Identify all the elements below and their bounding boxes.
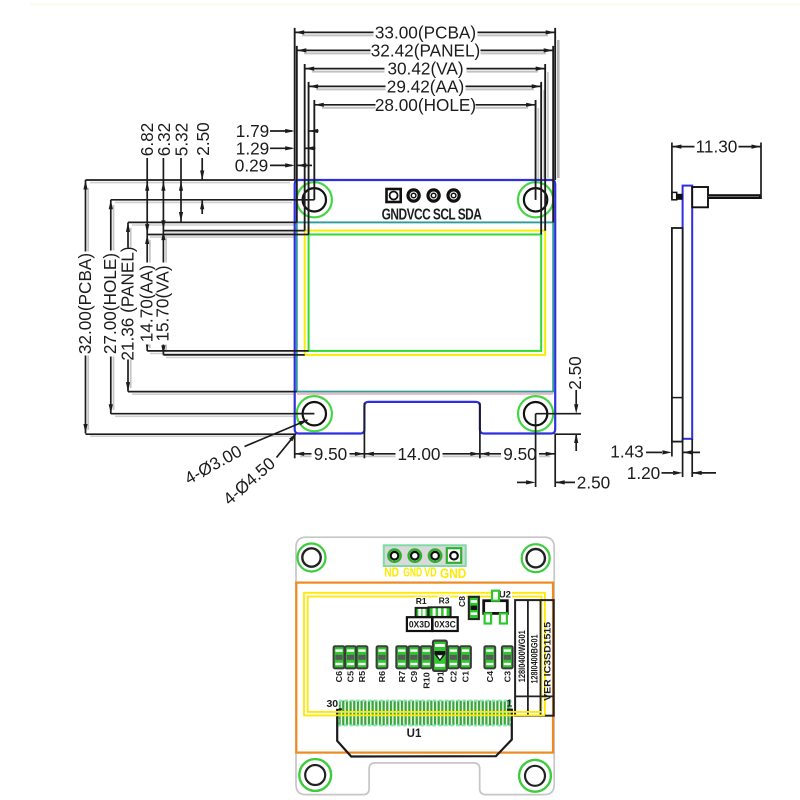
- back silk label ND: [384, 567, 399, 580]
- resistor R3 label: [438, 596, 451, 604]
- resistor R6 label: [378, 671, 388, 683]
- resistor R6 body: [377, 646, 388, 668]
- front mounting hole bottom-right pad: [518, 396, 553, 431]
- front view AA outline: [309, 235, 542, 351]
- dimension 2.50 top arrows: [201, 158, 203, 180]
- back mounting hole bottom-right: [519, 760, 551, 792]
- front pin 3 pad SCL: [428, 190, 439, 201]
- back view panel outline orange: [296, 583, 553, 753]
- extension line panel bottom: [128, 391, 297, 393]
- svg-text:21.36 (PANEL): 21.36 (PANEL): [117, 246, 137, 360]
- extension line hole x down: [535, 414, 537, 487]
- diode D1 body: [433, 641, 447, 671]
- extension line VA right up: [544, 64, 546, 231]
- resistor R5 body: [357, 646, 368, 668]
- back pin 2 round pad: [409, 550, 421, 562]
- dimension 9.50 right text: [501, 446, 539, 461]
- side view PCB bar: [683, 186, 693, 439]
- side view panel bar: [672, 228, 683, 442]
- extension line notch right: [479, 403, 481, 458]
- extension line AA top: [147, 234, 308, 236]
- dimension 1.20 text: [626, 465, 662, 480]
- extension line PCB top: [86, 179, 295, 181]
- svg-text:C8: C8: [457, 596, 467, 607]
- svg-text:1.20: 1.20: [627, 463, 660, 483]
- front mounting hole top-right pad: [518, 182, 553, 217]
- dimension 29.42(AA) text: [386, 79, 466, 94]
- extension line VA left up: [304, 64, 306, 231]
- side view pin left tip: [672, 192, 677, 199]
- dimension 14.70(AA) line: [146, 235, 148, 351]
- extension line hole left up: [313, 100, 315, 200]
- svg-text:2.50: 2.50: [193, 122, 213, 155]
- svg-text:U2: U2: [499, 589, 511, 600]
- capacitor C3 label: [503, 671, 513, 683]
- dimension 1.29 arrows: [270, 147, 292, 149]
- dimension 33.00(PCBA) line: [295, 31, 556, 33]
- svg-text:0X3C: 0X3C: [434, 619, 456, 630]
- svg-text:14.00: 14.00: [397, 444, 440, 464]
- shadow line bottom dim: [300, 455, 550, 457]
- capacitor C6 body: [334, 646, 345, 668]
- dimension 32.42(PANEL) line: [297, 49, 553, 51]
- extension line hole bottom centerline: [111, 413, 314, 415]
- svg-text:ND: ND: [384, 567, 399, 580]
- back view PCB silhouette: [296, 537, 554, 794]
- svg-text:32.42(PANEL): 32.42(PANEL): [371, 40, 481, 60]
- svg-text:VD: VD: [424, 566, 437, 580]
- transistor U2 pad bottom left: [485, 613, 492, 623]
- dimension 32.42(PANEL) extension lines: [296, 46, 298, 223]
- extension line PCB bottom: [86, 433, 295, 435]
- svg-text:D1: D1: [436, 671, 446, 683]
- svg-text:C3: C3: [503, 671, 513, 683]
- resistor R10 label: [422, 672, 432, 689]
- resistor R7 body: [396, 646, 407, 668]
- capacitor C2 label: [449, 671, 459, 683]
- svg-text:30: 30: [326, 698, 338, 710]
- front mounting hole top-left pad: [297, 182, 332, 217]
- capacitor C5 body: [345, 646, 356, 668]
- dimension 32.00(PCBA) text: [77, 252, 92, 356]
- svg-text:28.00(HOLE): 28.00(HOLE): [375, 95, 476, 115]
- front mounting hole top-right drill: [524, 188, 547, 211]
- dimension 11.30 line: [672, 146, 761, 148]
- dimension 5.32 line: [180, 158, 182, 222]
- svg-text:C4: C4: [485, 671, 495, 683]
- back mounting hole top-left: [298, 544, 326, 572]
- extension line hole right up: [535, 100, 537, 200]
- transistor U2 pad top: [492, 591, 499, 601]
- svg-text:C6: C6: [335, 671, 345, 683]
- dimension 28.00(HOLE) extension lines: [313, 100, 315, 200]
- extension line AA right up: [540, 82, 542, 235]
- dimension 33.00(PCBA) extension lines: [294, 28, 296, 180]
- dimension 4-3.00 leader: [245, 420, 308, 447]
- back trace loop inner: [308, 597, 542, 712]
- back trace bottom segments over connector: [304, 714, 545, 716]
- capacitor C6 label: [335, 671, 345, 683]
- extension line PCB left edge up: [294, 28, 296, 180]
- extension line bottom right: [554, 434, 556, 488]
- svg-text:C9: C9: [409, 671, 419, 683]
- version label box: [515, 600, 554, 716]
- extension line PCB right edge up: [554, 28, 556, 180]
- front view VA outline: [305, 231, 546, 355]
- front mounting hole top-left drill: [303, 188, 326, 211]
- svg-text:33.00(PCBA): 33.00(PCBA): [375, 22, 476, 42]
- svg-text:0.29: 0.29: [235, 155, 268, 175]
- capacitor C8 body: [469, 597, 479, 619]
- front pin 4 pad SDA: [448, 190, 459, 201]
- dimension 32.42(PANEL) text: [371, 43, 481, 58]
- front pin labels GND VCC SCL SDA: [382, 205, 482, 223]
- capacitor C5 label: [346, 671, 356, 683]
- svg-text:128I0400BG01: 128I0400BG01: [530, 635, 540, 684]
- extension line VA top: [163, 230, 304, 232]
- extension line AA bottom: [147, 350, 308, 352]
- capacitor C1 body: [460, 646, 471, 668]
- dimension 1.43 text: [609, 444, 645, 459]
- dimension 21.36 (PANEL) text: [120, 248, 135, 360]
- back mounting hole bottom-left: [299, 759, 331, 791]
- address box 0X3D: [407, 617, 432, 631]
- back pin 4 square pad: [447, 548, 461, 563]
- front pin 2 pad VCC: [408, 190, 419, 201]
- capacitor C2 body: [448, 646, 459, 668]
- extension line VA bottom: [163, 354, 304, 356]
- svg-text:0X3D: 0X3D: [409, 619, 431, 630]
- side view pin header body: [692, 187, 708, 207]
- svg-text:C5: C5: [346, 671, 356, 683]
- svg-text:9.50: 9.50: [314, 444, 347, 464]
- dimension 15.70(VA) line: [162, 231, 164, 355]
- side view pin right: [708, 194, 761, 199]
- dimension 28.00(HOLE) text: [376, 97, 476, 112]
- capacitor C8 label: [458, 596, 466, 608]
- transistor U2 body: [484, 601, 508, 614]
- back pin header body: [384, 545, 466, 566]
- svg-text:R6: R6: [378, 671, 388, 683]
- front view PCB outline: [295, 180, 556, 434]
- resistor R10 body: [421, 646, 432, 668]
- dimension 9.50 left text: [312, 446, 350, 461]
- svg-text:VER IC3SD1515: VER IC3SD1515: [542, 622, 552, 701]
- resistor R1 body: [416, 608, 429, 617]
- connector U1 glass outline: [337, 709, 512, 756]
- dimension 1.20 extension line: [691, 439, 693, 477]
- extension line AA left up: [308, 82, 310, 235]
- extension line bottom left: [294, 434, 296, 459]
- leader line hole diameter: [293, 413, 314, 415]
- dimension 27.00(HOLE) line: [110, 200, 112, 414]
- svg-text:32.00(PCBA): 32.00(PCBA): [75, 253, 95, 354]
- svg-text:R10: R10: [422, 672, 432, 689]
- extension line hole bottom right: [536, 413, 581, 415]
- dimension 21.36 (PANEL) line: [127, 222, 129, 391]
- shadow lines left verticals: [87, 188, 89, 430]
- svg-text:9.50: 9.50: [503, 444, 536, 464]
- svg-text:GND: GND: [440, 565, 466, 581]
- resistor R1 label: [415, 597, 428, 605]
- front mounting hole bottom-left pad: [297, 396, 332, 431]
- connector U1 pin 30 label: [326, 699, 339, 709]
- back silk label GND 2: [440, 565, 466, 581]
- dimension 1.79 arrows: [270, 130, 292, 132]
- dimension 28.00(HOLE) line: [314, 104, 535, 106]
- dimension 2.50 right arrows: [575, 390, 577, 409]
- front mounting hole bottom-right drill: [524, 402, 547, 425]
- dimension 6.82 line: [146, 158, 148, 235]
- dimension 30.42(VA) text: [385, 61, 467, 76]
- dimension 6.32 line: [162, 158, 164, 231]
- svg-text:2.50: 2.50: [565, 356, 585, 389]
- dimension 14.70(AA) text: [139, 263, 154, 345]
- dimension 0.29 text: [235, 158, 269, 172]
- dimension 30.42(VA) line: [305, 68, 546, 70]
- svg-text:29.42(AA): 29.42(AA): [387, 76, 464, 96]
- front mounting hole bottom-left drill: [303, 402, 326, 425]
- back pin 1 round pad: [388, 550, 400, 562]
- extension line PCB bottom right: [555, 433, 581, 435]
- dimension 15.70(VA) text: [155, 263, 170, 345]
- svg-text:GND: GND: [403, 566, 422, 580]
- dimension 2.50 bottom arrows: [517, 481, 527, 483]
- svg-text:2.50: 2.50: [577, 472, 610, 492]
- back silk label GND 1: [403, 566, 422, 580]
- capacitor C3 body: [502, 646, 513, 668]
- svg-text:11.30: 11.30: [696, 137, 738, 157]
- dimension 11.30 text: [695, 139, 739, 154]
- svg-text:R7: R7: [397, 671, 407, 683]
- dimension 1.20 arrows: [661, 472, 673, 474]
- dimension 2.50 right label: [568, 356, 582, 390]
- diode D1 label: [436, 671, 446, 683]
- dimension 1.43 arrows: [646, 451, 662, 453]
- back trace loop outer: [304, 593, 545, 716]
- svg-text:C2: C2: [449, 671, 459, 683]
- dimension 2.50 bottom text: [576, 475, 612, 490]
- dimension 1.29 text: [236, 141, 270, 155]
- svg-text:R3: R3: [439, 595, 450, 605]
- dimension 9.50 right line: [480, 453, 555, 455]
- dimension 9.50 left line: [295, 453, 365, 455]
- svg-text:GNDVCC SCL SDA: GNDVCC SCL SDA: [382, 205, 482, 223]
- dimension 30.42(VA) extension lines: [304, 64, 306, 231]
- extension line hole top centerline: [111, 199, 314, 201]
- shadow lines left horizontals: [90, 182, 290, 184]
- dimension 1.79 text: [236, 124, 270, 138]
- svg-text:15.70(VA): 15.70(VA): [153, 265, 173, 341]
- extension line panel top: [128, 221, 297, 223]
- front pin 1 square pad GND: [387, 189, 401, 202]
- resistor R3 body: [429, 607, 451, 617]
- back silk label VD: [424, 566, 437, 580]
- back pin 3 round pad: [429, 550, 441, 562]
- dimension 32.00(PCBA) line: [85, 180, 87, 434]
- extension line notch left: [363, 403, 365, 458]
- address box 0X3C: [433, 617, 458, 631]
- front view panel outline: [297, 222, 553, 391]
- svg-text:U1: U1: [407, 728, 422, 740]
- svg-text:128I0400WG01: 128I0400WG01: [517, 630, 527, 682]
- dimension 0.29 arrows: [270, 164, 292, 166]
- dimension 4-4.50 leader: [277, 434, 296, 458]
- dimension 14.00 line: [364, 453, 480, 455]
- svg-text:R5: R5: [358, 671, 368, 683]
- svg-text:1.43: 1.43: [610, 442, 643, 462]
- capacitor C4 label: [485, 671, 495, 683]
- resistor R5 label: [358, 671, 368, 683]
- resistor R7 label: [397, 671, 407, 683]
- svg-text:5.32: 5.32: [171, 123, 191, 156]
- svg-text:R1: R1: [416, 596, 427, 606]
- cream band top: [30, 3, 800, 6]
- dimension 14.00 text: [396, 446, 443, 461]
- capacitor C4 body: [484, 646, 495, 668]
- extension line panel right up: [552, 46, 554, 222]
- svg-text:C1: C1: [461, 671, 471, 683]
- svg-text:1: 1: [506, 698, 512, 710]
- shadow lines top dims: [302, 34, 548, 36]
- capacitor C9 body: [409, 646, 420, 668]
- side view panel mid tick: [672, 397, 683, 399]
- capacitor C9 label: [409, 671, 419, 683]
- back mounting hole top-right: [522, 544, 550, 572]
- connector U1 label: [406, 728, 422, 739]
- connector U1 pad border: [339, 701, 511, 726]
- shadow lines top right extensions: [557, 40, 560, 178]
- dimension 27.00(HOLE) text: [103, 251, 118, 357]
- dimension 29.42(AA) extension lines: [308, 82, 310, 235]
- transistor U2 pad bottom right: [500, 613, 507, 623]
- transistor U2 label: [498, 591, 512, 599]
- front view panel bottom pink line: [297, 393, 553, 395]
- capacitor C1 label: [461, 671, 471, 683]
- dimension 29.42(AA) line: [309, 85, 542, 87]
- dimension 33.00(PCBA) text: [374, 25, 478, 40]
- dimension 11.30 extension lines: [671, 143, 673, 200]
- extension line panel left up: [296, 46, 298, 222]
- dimension 1.43 extension lines: [671, 442, 673, 457]
